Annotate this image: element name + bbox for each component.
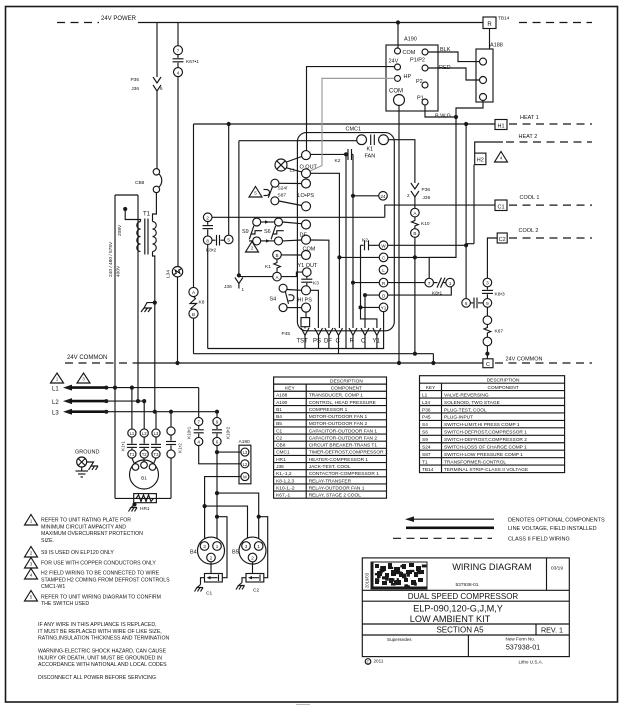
- svg-text:2019/03: 2019/03: [365, 572, 370, 588]
- svg-text:S9: S9: [242, 229, 249, 235]
- wire K1 fan to P36 cool jack: [388, 140, 415, 183]
- svg-text:TRANSDUCER, COMP 1: TRANSDUCER, COMP 1: [309, 393, 364, 399]
- svg-text:STAMPED H2 COMING FROM DEFROST: STAMPED H2 COMING FROM DEFROST CONTROLS: [41, 577, 170, 583]
- wire jack5 up to heat1 run: [228, 124, 230, 235]
- svg-text:A188: A188: [490, 43, 503, 49]
- svg-text:MINIMUM CIRCUIT AMPACITY AND: MINIMUM CIRCUIT AMPACITY AND: [41, 524, 126, 530]
- svg-text:T3: T3: [154, 452, 160, 457]
- svg-text:L2: L2: [243, 462, 248, 467]
- svg-text:P45: P45: [282, 331, 291, 337]
- svg-text:3: 3: [245, 544, 248, 549]
- svg-text:HR1: HR1: [140, 506, 150, 512]
- svg-text:A190: A190: [239, 439, 251, 445]
- svg-text:B5: B5: [232, 550, 239, 556]
- svg-text:DESCRIPTION: DESCRIPTION: [487, 378, 520, 384]
- svg-text:2: 2: [206, 216, 209, 221]
- wire HEAT 1 run: [194, 123, 496, 125]
- note triangle 4: [495, 152, 508, 163]
- svg-text:2: 2: [251, 556, 254, 561]
- note 4 text: [25, 569, 38, 580]
- svg-text:RELAY-OUTDOOR FAN 1: RELAY-OUTDOOR FAN 1: [309, 485, 365, 491]
- svg-text:L3: L3: [154, 431, 159, 436]
- svg-text:208V: 208V: [117, 224, 123, 236]
- svg-text:REFER TO UNIT RATING PLATE FOR: REFER TO UNIT RATING PLATE FOR: [41, 518, 131, 524]
- svg-text:JACK-TEST, COOL: JACK-TEST, COOL: [309, 464, 351, 470]
- svg-text:K8•3: K8•3: [495, 292, 506, 298]
- svg-text:LO•PS: LO•PS: [298, 193, 315, 199]
- svg-text:CIRCUIT BREAKER-TRANS T1: CIRCUIT BREAKER-TRANS T1: [309, 443, 378, 449]
- heater HR1: [170, 458, 172, 498]
- ground chassis at T1: [144, 303, 155, 308]
- wire A190 HP grey to O OUT: [309, 78, 395, 171]
- node junction 24V power / A190 COM: [396, 20, 400, 24]
- wire P45 pin stubs to bus: [304, 335, 306, 348]
- svg-text:B4: B4: [190, 550, 197, 556]
- transducer A188: [476, 49, 493, 102]
- svg-text:TERMINAL STRIP-CLASS II VOLTAG: TERMINAL STRIP-CLASS II VOLTAGE: [444, 467, 528, 473]
- wire K10-1 to A190 L2: [199, 446, 241, 464]
- svg-text:J36: J36: [423, 195, 431, 201]
- svg-text:L1: L1: [52, 387, 59, 393]
- svg-text:T1: T1: [143, 212, 151, 218]
- svg-text:K8•1: K8•1: [432, 291, 443, 297]
- svg-text:B5: B5: [276, 421, 282, 427]
- terminal O OUT pair: [302, 151, 311, 160]
- svg-text:CB8: CB8: [135, 180, 145, 186]
- relay coil K10 with jacks A B: [411, 208, 420, 217]
- svg-text:K3: K3: [313, 281, 319, 287]
- note 2 text: [25, 547, 38, 558]
- svg-text:Y1: Y1: [381, 306, 387, 311]
- svg-text:L: L: [382, 268, 385, 273]
- capacitor C1: [210, 562, 212, 574]
- note 1 text: [25, 515, 38, 526]
- svg-text:MOTOR-OUTDOOR FAN 2: MOTOR-OUTDOOR FAN 2: [309, 421, 368, 427]
- wire K67-1 to L34: [177, 77, 179, 267]
- svg-text:K1•2: K1•2: [178, 443, 183, 453]
- svg-text:REV. 1: REV. 1: [541, 625, 563, 634]
- svg-text:CMC1: CMC1: [346, 127, 362, 133]
- svg-text:COM: COM: [389, 89, 403, 95]
- terminal R box TB14: [483, 17, 496, 29]
- svg-text:S87: S87: [422, 452, 431, 458]
- svg-text:O OUT: O OUT: [300, 165, 318, 171]
- svg-text:K1•1: K1•1: [121, 441, 126, 451]
- wire C pin feed from O OUT bottom: [311, 173, 340, 328]
- wire S24 to LO-PS: [279, 182, 302, 184]
- svg-text:DISCONNECT ALL POWER BEFORE SE: DISCONNECT ALL POWER BEFORE SERVICING: [38, 675, 156, 681]
- wire 24V power drop to P36/J36: [156, 23, 158, 78]
- relay contact K1 FAN: [357, 135, 367, 145]
- svg-text:C2: C2: [253, 588, 259, 594]
- svg-text:INJURY OR DEATH, UNIT MUST BE: INJURY OR DEATH, UNIT MUST BE GROUNDED I…: [38, 655, 162, 661]
- svg-text:C: C: [366, 659, 369, 664]
- wire O to K8-1: [447, 287, 451, 295]
- svg-text:4: 4: [177, 70, 180, 75]
- svg-text:240 / 480 / 575V: 240 / 480 / 575V: [108, 241, 114, 277]
- svg-text:S9 IS USED ON ELP120 ONLY: S9 IS USED ON ELP120 ONLY: [41, 550, 114, 556]
- connector P36/J36 (cool test): [411, 183, 419, 189]
- note triangle 3: [77, 373, 90, 383]
- svg-text:P36: P36: [422, 187, 431, 193]
- terminal LO-PS pair: [302, 179, 311, 188]
- svg-text:K10•1: K10•1: [187, 426, 192, 439]
- svg-text:K8: K8: [199, 300, 205, 306]
- wire S9-S6-DF top: [261, 221, 275, 223]
- svg-text:S9: S9: [422, 437, 428, 443]
- svg-text:COMPONENT: COMPONENT: [331, 386, 362, 392]
- svg-text:T1: T1: [422, 459, 428, 465]
- svg-text:B4: B4: [276, 414, 282, 420]
- svg-text:SWITCH-DEFROST,COMPRESSOR 2: SWITCH-DEFROST,COMPRESSOR 2: [444, 437, 527, 443]
- svg-text:B: B: [413, 231, 416, 236]
- svg-text:HEAT 1: HEAT 1: [520, 115, 539, 121]
- svg-text:B: B: [275, 253, 278, 258]
- svg-text:S6: S6: [422, 430, 428, 436]
- wire M to HR1 and fans: [205, 477, 241, 542]
- transformer T1 tap box: [115, 194, 138, 196]
- relay contact K10-1: [198, 388, 200, 418]
- svg-text:COMPRESSOR 1: COMPRESSOR 1: [309, 407, 348, 413]
- wire K2 right down to R: [352, 154, 354, 328]
- relay contact K8-3: [483, 278, 492, 287]
- wire K10-2 down to fans: [216, 446, 218, 542]
- svg-text:SWITCH-LIMIT,HI PRESS COMP 1: SWITCH-LIMIT,HI PRESS COMP 1: [444, 422, 520, 428]
- wire A190 COM to 24V common: [398, 106, 400, 364]
- wire inner enclosure left: [238, 141, 240, 276]
- svg-text:Supersedes: Supersedes: [387, 637, 412, 642]
- svg-text:HI PS: HI PS: [298, 298, 313, 304]
- svg-text:8: 8: [206, 238, 209, 243]
- svg-text:B: B: [192, 312, 195, 317]
- svg-text:C2: C2: [276, 435, 282, 441]
- wire 24V power dashed left: [57, 22, 99, 24]
- svg-text:2: 2: [407, 193, 410, 198]
- connector A190 (plug): [239, 445, 251, 484]
- svg-text:CMC1: CMC1: [276, 450, 290, 456]
- fan motor B5: [239, 537, 266, 564]
- copyright: [365, 659, 371, 665]
- svg-text:IF ANY WIRE IN THIS APPLIANCE: IF ANY WIRE IN THIS APPLIANCE IS REPLACE…: [38, 622, 157, 628]
- svg-text:CLASS II FIELD WIRING: CLASS II FIELD WIRING: [508, 537, 570, 543]
- svg-text:M: M: [243, 475, 247, 480]
- legend optional components: [405, 516, 414, 522]
- svg-text:CONTROL, HEAD PRESSURE: CONTROL, HEAD PRESSURE: [309, 400, 376, 406]
- wire 24V power to A190 COM pin: [397, 23, 399, 49]
- terminal circles W C L R O Y1: [388, 244, 466, 246]
- svg-text:DUAL SPEED COMPRESSOR: DUAL SPEED COMPRESSOR: [408, 592, 519, 601]
- wire COOL 1 run: [212, 216, 385, 218]
- wire bottom bus 2: [194, 353, 434, 355]
- svg-text:DF: DF: [324, 339, 332, 345]
- svg-text:O: O: [382, 293, 386, 298]
- svg-text:New Form No.: New Form No.: [506, 637, 536, 642]
- ground chassis at HR1: [131, 504, 137, 507]
- fan motor B4: [198, 537, 225, 564]
- svg-text:L34: L34: [166, 270, 172, 278]
- svg-text:L2: L2: [52, 400, 59, 406]
- note 5 text: [25, 591, 38, 602]
- svg-text:ACCORDANCE WITH NATIONAL AND L: ACCORDANCE WITH NATIONAL AND LOCAL CODES: [38, 662, 167, 668]
- svg-text:K1,-1,2: K1,-1,2: [276, 471, 292, 477]
- relay coil K1 with jacks B A: [273, 251, 282, 260]
- svg-text:7: 7: [428, 281, 431, 286]
- svg-text:24V COMMON: 24V COMMON: [506, 357, 543, 363]
- svg-text:DENOTES OPTIONAL COMPONENTS: DENOTES OPTIONAL COMPONENTS: [508, 518, 605, 524]
- barcode data matrix: [371, 562, 427, 589]
- svg-text:HR1: HR1: [276, 457, 286, 463]
- wire 24V power solid: [138, 22, 483, 24]
- svg-text:TIMER-DEFROST,COMPRESSOR 1: TIMER-DEFROST,COMPRESSOR 1: [309, 450, 388, 456]
- svg-text:S4: S4: [270, 297, 277, 303]
- svg-text:C1: C1: [497, 205, 504, 211]
- scan artifact: [296, 704, 310, 706]
- svg-text:A190: A190: [276, 400, 288, 406]
- svg-text:T2: T2: [142, 452, 148, 457]
- contactor K1-2 aux: [170, 412, 172, 427]
- svg-text:9: 9: [216, 420, 219, 425]
- svg-text:J36: J36: [131, 86, 139, 92]
- svg-text:K8-1,2,3: K8-1,2,3: [276, 478, 294, 484]
- note 3 text: [25, 558, 38, 569]
- jack 24: [379, 192, 388, 201]
- svg-text:C1: C1: [206, 591, 212, 597]
- svg-text:COM: COM: [403, 50, 416, 56]
- svg-text:WIRING DIAGRAM: WIRING DIAGRAM: [452, 562, 532, 572]
- svg-text:P36: P36: [130, 77, 139, 83]
- svg-text:K67•1: K67•1: [186, 59, 199, 65]
- connector P36/J36 (left): [153, 77, 161, 83]
- svg-text:K10: K10: [421, 221, 430, 227]
- svg-text:3: 3: [203, 544, 206, 549]
- title block frame: [362, 558, 569, 657]
- terminal H1 box: [495, 120, 507, 130]
- svg-text:K10•2: K10•2: [226, 426, 231, 439]
- wire bottom bus 1 to Y1 jack: [208, 312, 384, 349]
- svg-text:S24: S24: [422, 445, 431, 451]
- svg-text:H1: H1: [497, 124, 504, 130]
- timer CMC1 defrost box: [297, 133, 394, 331]
- relay coil K67: [486, 307, 488, 316]
- svg-text:J36: J36: [276, 464, 284, 470]
- lamp L1: [275, 159, 287, 171]
- svg-text:L3: L3: [52, 411, 59, 417]
- svg-text:RELAY-TRANSFER: RELAY-TRANSFER: [309, 478, 352, 484]
- svg-text:L1: L1: [130, 431, 135, 436]
- svg-text:K67,-1: K67,-1: [276, 493, 290, 499]
- circuit breaker CB8: [153, 169, 159, 175]
- switch S6 defrost comp 1: [275, 218, 283, 226]
- wire to C2 right: [257, 515, 261, 519]
- wire secondary to chassis and L3: [153, 252, 155, 412]
- svg-text:SWITCH-LOSS OF CHARGE COMP 1: SWITCH-LOSS OF CHARGE COMP 1: [444, 445, 527, 451]
- terminal C1 box: [495, 200, 507, 211]
- control A190 head pressure: [386, 45, 438, 111]
- svg-text:SWITCH-LOW PRESSURE COMP 1: SWITCH-LOW PRESSURE COMP 1: [444, 452, 523, 458]
- wire S9-S6-DF bottom: [249, 240, 253, 242]
- legend line voltage: [406, 526, 494, 529]
- svg-text:LOW AMBIENT KIT: LOW AMBIENT KIT: [410, 614, 491, 624]
- svg-text:C2: C2: [499, 237, 506, 243]
- switch S24/S87 loss of charge: [271, 179, 279, 187]
- capacitor C2: [252, 562, 254, 574]
- note triangle 2: [246, 242, 259, 253]
- svg-text:MAXIMUM OVERCURRENT PROTECTION: MAXIMUM OVERCURRENT PROTECTION: [41, 531, 143, 537]
- svg-text:A188: A188: [276, 393, 288, 399]
- svg-text:S87: S87: [278, 193, 287, 199]
- svg-text:K1: K1: [265, 264, 271, 270]
- svg-text:MOTOR-OUTDOOR FAN 1: MOTOR-OUTDOOR FAN 1: [309, 414, 368, 420]
- relay contact K8-1: [425, 278, 434, 287]
- svg-text:IT MUST BE REPLACED WITH WIRE: IT MUST BE REPLACED WITH WIRE OF LIKE SI…: [38, 629, 162, 635]
- svg-text:S4: S4: [422, 422, 428, 428]
- svg-text:RATING,INSULATION THICKNESS AN: RATING,INSULATION THICKNESS AND TERMINAT…: [38, 636, 169, 642]
- svg-text:HEATER-COMPRESSOR 1: HEATER-COMPRESSOR 1: [309, 457, 369, 463]
- svg-text:A190: A190: [404, 37, 417, 43]
- wire L34 to 24V common: [177, 277, 179, 363]
- svg-text:L1: L1: [422, 392, 428, 398]
- svg-text:CONTACTOR-COMPRESSOR 1: CONTACTOR-COMPRESSOR 1: [309, 471, 380, 477]
- wire P36 to CB8: [156, 91, 158, 169]
- svg-text:COOL 2: COOL 2: [519, 228, 539, 234]
- svg-text:SOLENOID, TWO STAGE: SOLENOID, TWO STAGE: [444, 400, 500, 406]
- svg-text:6: 6: [465, 301, 468, 306]
- svg-text:TB14: TB14: [498, 16, 510, 22]
- svg-text:H2 FIELD WIRING TO BE CONNECTE: H2 FIELD WIRING TO BE CONNECTED TO WIRE: [41, 571, 160, 577]
- note triangle 5: [249, 187, 262, 198]
- svg-text:B1: B1: [141, 476, 147, 482]
- svg-text:R: R: [350, 339, 355, 345]
- svg-text:2011: 2011: [374, 659, 384, 664]
- svg-text:2: 2: [210, 556, 213, 561]
- terminal DF pair: [302, 220, 311, 229]
- svg-text:T1: T1: [129, 452, 135, 457]
- switch S9 defrost comp 2: [253, 218, 261, 226]
- svg-text:COOL 1: COOL 1: [520, 195, 540, 201]
- jack J36 test cool: [237, 273, 241, 277]
- svg-text:7: 7: [197, 420, 200, 425]
- relay contact K2 (top): [311, 153, 345, 155]
- svg-text:S6: S6: [264, 229, 271, 235]
- svg-text:COMPONENT: COMPONENT: [488, 385, 519, 391]
- svg-text:HEAT 2: HEAT 2: [519, 134, 538, 140]
- note triangle 1: [51, 373, 64, 383]
- svg-text:VALVE-REVERSING: VALVE-REVERSING: [444, 392, 489, 398]
- node R / 24V: [351, 194, 355, 198]
- svg-text:P1/P2: P1/P2: [410, 58, 425, 64]
- svg-text:5: 5: [227, 238, 230, 243]
- svg-text:SECTION A5: SECTION A5: [436, 625, 484, 634]
- svg-text:DF: DF: [300, 233, 308, 239]
- compressor B1: [130, 460, 159, 489]
- svg-text:HP: HP: [404, 74, 412, 80]
- svg-text:TB14: TB14: [422, 467, 434, 473]
- wire C2 to K8-3: [487, 238, 497, 278]
- svg-text:24: 24: [380, 194, 386, 199]
- terminal C box 24V COMMON: [483, 359, 493, 368]
- wire to B5 terminal 1: [217, 493, 259, 542]
- table component key 2: [420, 376, 565, 473]
- svg-text:TST: TST: [297, 339, 309, 345]
- relay contact K10-2: [213, 417, 221, 425]
- svg-text:SWITCH-DEFROST,COMPRESSOR 1: SWITCH-DEFROST,COMPRESSOR 1: [444, 430, 527, 436]
- svg-text:Litho U.S.A.: Litho U.S.A.: [519, 660, 544, 665]
- svg-text:FOR USE WITH COPPER CONDUCTORS: FOR USE WITH COPPER CONDUCTORS ONLY: [41, 561, 156, 567]
- wire to A190 L3: [217, 451, 241, 453]
- svg-text:THE SWITCH USED: THE SWITCH USED: [41, 601, 89, 607]
- svg-text:FAN: FAN: [365, 154, 376, 160]
- svg-text:7: 7: [177, 48, 180, 53]
- svg-text:GROUND: GROUND: [75, 450, 99, 456]
- svg-text:1: 1: [257, 544, 260, 549]
- svg-text:REFER TO UNIT WIRING DIAGRAM T: REFER TO UNIT WIRING DIAGRAM TO CONFIRM: [41, 594, 161, 600]
- svg-text:ELP-090,120-G,J,M,Y: ELP-090,120-G,J,M,Y: [413, 604, 503, 614]
- svg-text:537938-01: 537938-01: [506, 643, 540, 652]
- wire A190 24V to O OUT: [307, 67, 395, 151]
- svg-text:24V COMMON: 24V COMMON: [67, 355, 107, 361]
- wire DF pin feed from defrost switches: [311, 240, 329, 328]
- wire left riser with K8 coil: [193, 124, 195, 288]
- svg-text:L34: L34: [422, 400, 430, 406]
- svg-text:K2: K2: [362, 238, 368, 244]
- svg-text:WARNING-ELECTRIC SHOCK HAZARD,: WARNING-ELECTRIC SHOCK HAZARD, CAN CAUSE: [38, 649, 167, 655]
- svg-text:3: 3: [486, 281, 489, 286]
- plug P45: [305, 312, 307, 318]
- svg-text:L2: L2: [142, 431, 147, 436]
- wire heat1 dashed: [509, 123, 592, 125]
- transformer T1 windings: [137, 222, 141, 252]
- svg-text:LINE VOLTAGE, FIELD INSTALLED: LINE VOLTAGE, FIELD INSTALLED: [508, 526, 597, 532]
- svg-text:H2: H2: [477, 158, 484, 164]
- wire 24V power drop to K67-1: [177, 23, 179, 46]
- wire jack8 down to bus: [207, 245, 209, 349]
- svg-text:SIZE.: SIZE.: [41, 538, 54, 544]
- relay contact K8-2 with jacks 2 8 5: [203, 213, 212, 222]
- svg-text:K67: K67: [495, 329, 504, 335]
- svg-text:J36: J36: [224, 284, 232, 290]
- svg-text:W: W: [381, 244, 386, 249]
- legend class II field wiring: [393, 537, 492, 539]
- svg-text:S24/: S24/: [278, 186, 289, 192]
- svg-text:K2: K2: [335, 158, 341, 164]
- svg-text:K1: K1: [367, 147, 374, 153]
- relay contact 6-9: [462, 299, 471, 308]
- svg-text:DESCRIPTION: DESCRIPTION: [330, 379, 363, 385]
- svg-text:1: 1: [242, 287, 245, 292]
- svg-text:KEY: KEY: [285, 386, 295, 392]
- svg-text:CB8: CB8: [276, 443, 286, 449]
- svg-text:PLUG-INPUT: PLUG-INPUT: [444, 415, 473, 421]
- relay contact K67-1: [174, 46, 183, 55]
- connector P45 pins: [304, 327, 306, 329]
- wire HI PS top to PS pin: [311, 290, 319, 328]
- svg-text:CMC1-W1: CMC1-W1: [41, 584, 65, 590]
- svg-text:P45: P45: [422, 415, 431, 421]
- contactor K1-1 poles: [131, 388, 133, 429]
- svg-text:400V: 400V: [116, 265, 122, 277]
- svg-text:R: R: [487, 22, 492, 28]
- svg-text:K10-1,-2: K10-1,-2: [276, 485, 295, 491]
- svg-text:RELAY, STAGE 2 COOL: RELAY, STAGE 2 COOL: [309, 493, 362, 499]
- svg-text:KEY: KEY: [426, 385, 436, 391]
- wire K2 junction branch down to bus: [345, 154, 347, 348]
- svg-text:C1: C1: [276, 428, 282, 434]
- svg-text:CAPACITOR-OUTDOOR FAN 2: CAPACITOR-OUTDOOR FAN 2: [309, 435, 378, 441]
- svg-text:4: 4: [197, 440, 200, 445]
- switch S4 hi pressure: [279, 284, 287, 292]
- wire H1 node to W: [465, 124, 467, 299]
- svg-text:24V POWER: 24V POWER: [101, 16, 137, 22]
